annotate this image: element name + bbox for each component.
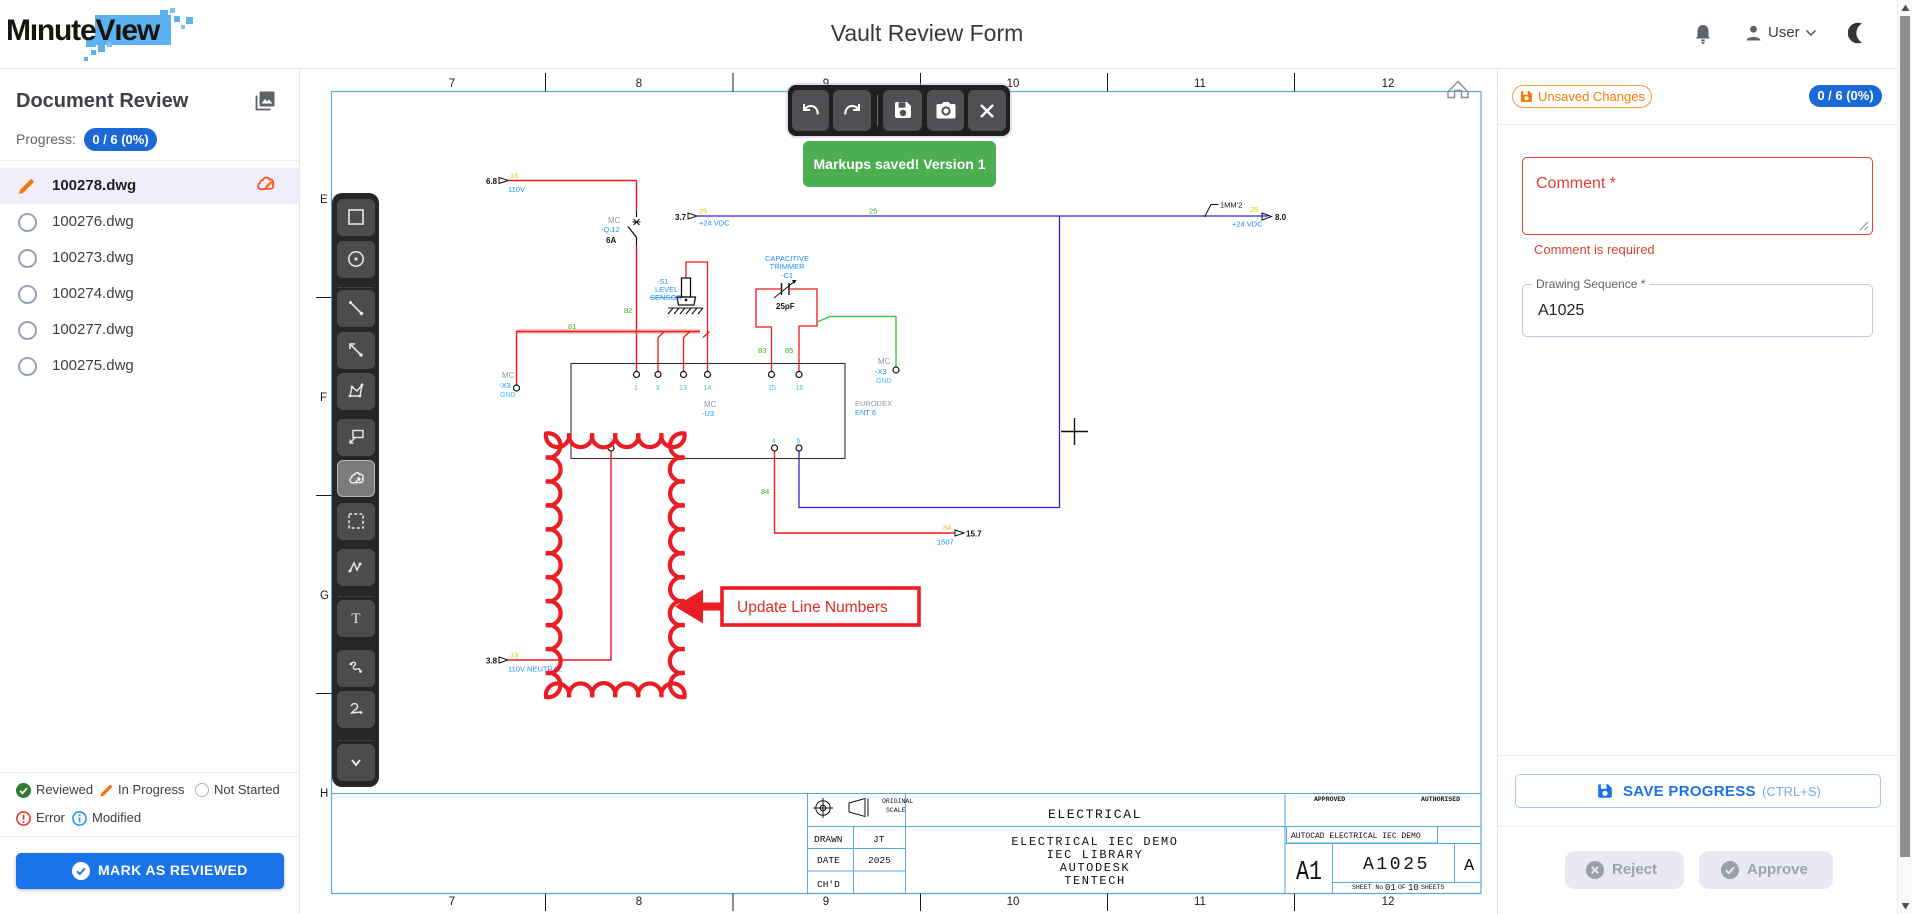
title bbox=[727, 20, 1127, 47]
node 1507 arrow 15.7 bbox=[937, 523, 982, 547]
svg-text:OF: OF bbox=[1398, 884, 1406, 891]
svg-text:-Q.12: -Q.12 bbox=[601, 225, 620, 234]
svg-text:F: F bbox=[320, 392, 327, 404]
file rows bbox=[0, 168, 299, 204]
title block top line bbox=[332, 793, 1482, 795]
svg-text:EURODEX: EURODEX bbox=[855, 399, 892, 408]
svg-text:AUTOCAD ELECTRICAL IEC DEMO: AUTOCAD ELECTRICAL IEC DEMO bbox=[1291, 832, 1421, 841]
svg-text:84: 84 bbox=[943, 523, 951, 532]
svg-text:4: 4 bbox=[772, 438, 776, 445]
module U3 body bbox=[571, 364, 845, 459]
terminal MC-X3 GND left bbox=[499, 371, 516, 399]
logo MinuteView bbox=[8, 8, 208, 60]
svg-text:SCALE: SCALE bbox=[886, 807, 906, 814]
unsaved changes pill bbox=[1512, 85, 1652, 108]
level sensor S1 wiring bbox=[686, 262, 708, 338]
pin 13 bbox=[681, 372, 687, 378]
markup callout box Update Line Numbers bbox=[722, 588, 919, 625]
node 110V feed arrow 6.8 bbox=[486, 171, 525, 194]
svg-text:3: 3 bbox=[656, 385, 660, 392]
svg-text:14: 14 bbox=[704, 385, 712, 392]
wire pin2 to neutral bbox=[509, 452, 612, 661]
svg-text:ELECTRICAL IEC DEMO: ELECTRICAL IEC DEMO bbox=[1011, 835, 1178, 849]
svg-text:84: 84 bbox=[761, 487, 769, 496]
ruler ticks top bbox=[546, 73, 1295, 92]
svg-text:APPROVED: APPROVED bbox=[1314, 796, 1345, 803]
contact to pin14 bbox=[703, 332, 710, 372]
svg-text:SHEETS: SHEETS bbox=[1421, 884, 1445, 891]
wire gauge 1MM2 bbox=[1205, 201, 1243, 218]
svg-text:1507: 1507 bbox=[937, 538, 954, 547]
svg-text:11: 11 bbox=[1194, 896, 1206, 908]
legend bbox=[0, 772, 299, 773]
svg-text:TENTECH: TENTECH bbox=[1064, 874, 1126, 888]
svg-text:6.8: 6.8 bbox=[486, 177, 498, 186]
svg-text:7: 7 bbox=[449, 896, 455, 908]
ruler ticks bottom bbox=[546, 894, 1295, 912]
svg-text:AUTODESK: AUTODESK bbox=[1060, 861, 1130, 875]
ruler numbers top bbox=[449, 78, 1395, 90]
capacitive trimmer C1 labels bbox=[765, 254, 809, 280]
wire C1 left to pin15 bbox=[756, 289, 782, 371]
svg-text:10: 10 bbox=[1408, 883, 1419, 893]
svg-text:12: 12 bbox=[1382, 78, 1395, 90]
pin 16 bbox=[796, 372, 802, 378]
wire +24VDC drop right bbox=[799, 216, 1060, 508]
module U3 label bbox=[702, 400, 717, 418]
svg-text:ORIGINAL: ORIGINAL bbox=[882, 798, 913, 805]
wire down to breaker bbox=[636, 181, 638, 212]
svg-text:81: 81 bbox=[568, 322, 576, 331]
circuit breaker Q12 bbox=[601, 211, 641, 246]
wire breaker to pin1 bbox=[636, 246, 638, 371]
markup revision cloud bbox=[546, 433, 685, 697]
svg-text:MC: MC bbox=[502, 371, 515, 380]
svg-text:8.0: 8.0 bbox=[1275, 213, 1287, 222]
svg-text:8: 8 bbox=[636, 78, 642, 90]
svg-text:AUTHORISED: AUTHORISED bbox=[1421, 796, 1460, 803]
wire green to X3 bbox=[817, 317, 896, 367]
ruler numbers bottom bbox=[449, 896, 1395, 908]
svg-text:16: 16 bbox=[510, 171, 518, 180]
svg-text:MC: MC bbox=[608, 216, 621, 225]
svg-text:01: 01 bbox=[1385, 883, 1396, 893]
bell icon bbox=[1693, 23, 1713, 45]
svg-text:25: 25 bbox=[1250, 205, 1258, 214]
module type EURODEX ENT 6 bbox=[855, 399, 892, 417]
counter badge bbox=[1809, 85, 1882, 107]
contact to pin13 bbox=[684, 332, 691, 372]
home icon bbox=[1448, 82, 1468, 98]
svg-text:-C1: -C1 bbox=[781, 271, 793, 280]
svg-text:-X3: -X3 bbox=[499, 381, 511, 390]
svg-text:8: 8 bbox=[636, 896, 642, 908]
svg-text:1: 1 bbox=[634, 385, 638, 392]
pin 14 bbox=[705, 372, 711, 378]
svg-text:-U3: -U3 bbox=[702, 409, 714, 418]
wire pin4 to 1507 bbox=[775, 452, 956, 534]
svg-text:A1025: A1025 bbox=[1363, 855, 1430, 875]
svg-text:ELECTRICAL: ELECTRICAL bbox=[1048, 807, 1142, 822]
svg-text:TRIMMER: TRIMMER bbox=[770, 262, 806, 271]
svg-text:+24 VDC: +24 VDC bbox=[699, 219, 730, 228]
title block approvals bbox=[1291, 796, 1475, 893]
level sensor S1 bbox=[650, 277, 696, 305]
moon icon bbox=[1848, 22, 1870, 44]
svg-text:H: H bbox=[320, 788, 328, 800]
markup leader arrow bbox=[675, 590, 723, 624]
wire +24VDC bus bbox=[697, 215, 1268, 217]
svg-text:3.8: 3.8 bbox=[486, 657, 498, 666]
wire 110V horizontal bbox=[508, 180, 637, 182]
photo library icon bbox=[254, 90, 276, 112]
svg-text:SHEET No: SHEET No bbox=[1352, 884, 1383, 891]
wire 81 run bbox=[517, 332, 701, 385]
svg-text:25: 25 bbox=[699, 207, 707, 216]
row letters left bbox=[320, 194, 329, 800]
svg-text:25pF: 25pF bbox=[776, 302, 795, 311]
svg-text:5: 5 bbox=[797, 438, 801, 445]
svg-text:25: 25 bbox=[869, 207, 877, 216]
node +24VDC feed arrow 3.7 bbox=[675, 207, 730, 228]
svg-text:6A: 6A bbox=[606, 236, 616, 245]
svg-text:2025: 2025 bbox=[868, 855, 891, 866]
svg-text:E: E bbox=[320, 194, 328, 206]
comment field bbox=[1522, 157, 1873, 235]
svg-text:13: 13 bbox=[510, 651, 518, 660]
svg-text:-X3: -X3 bbox=[875, 367, 887, 376]
svg-text:JT: JT bbox=[873, 834, 885, 845]
capacitor C1 bbox=[774, 280, 797, 298]
node +24VDC out arrow 8.0 bbox=[1232, 205, 1287, 229]
node 110V NEUTRAL arrow 3.8 bbox=[486, 651, 562, 674]
svg-text:15: 15 bbox=[768, 385, 776, 392]
svg-text:12: 12 bbox=[1382, 896, 1395, 908]
svg-text:13: 13 bbox=[679, 385, 687, 392]
svg-text:IEC LIBRARY: IEC LIBRARY bbox=[1047, 848, 1144, 862]
svg-text:Update Line Numbers: Update Line Numbers bbox=[737, 599, 888, 616]
svg-text:A: A bbox=[1464, 857, 1475, 876]
svg-text:GND: GND bbox=[876, 378, 892, 385]
ground hatching bbox=[668, 308, 703, 314]
svg-text:+24 VDC: +24 VDC bbox=[1232, 220, 1263, 229]
svg-text:1MM'2: 1MM'2 bbox=[1220, 201, 1242, 210]
svg-text:85: 85 bbox=[785, 346, 793, 355]
svg-text:DRAWN: DRAWN bbox=[814, 834, 843, 845]
mark as reviewed button bbox=[16, 853, 284, 889]
pin 3 bbox=[655, 372, 661, 378]
save progress bbox=[1498, 755, 1898, 756]
crosshair cursor bbox=[1061, 418, 1088, 445]
pin 1 bbox=[634, 372, 640, 378]
title block grid bbox=[808, 794, 1482, 894]
wire 81 highlight bbox=[517, 329, 701, 334]
svg-text:GND: GND bbox=[500, 392, 516, 399]
svg-text:7: 7 bbox=[449, 78, 455, 90]
title block drawn/date bbox=[814, 834, 891, 890]
title block project bbox=[1011, 807, 1178, 888]
pin 15 bbox=[769, 372, 775, 378]
svg-text:16: 16 bbox=[796, 385, 804, 392]
svg-text:G: G bbox=[320, 590, 329, 602]
svg-text:83: 83 bbox=[758, 346, 766, 355]
svg-text:82: 82 bbox=[624, 306, 632, 315]
wire C1 right to pin16 bbox=[789, 289, 817, 371]
svg-text:10: 10 bbox=[1007, 896, 1020, 908]
svg-text:ENT 6: ENT 6 bbox=[855, 408, 876, 417]
svg-text:MC: MC bbox=[704, 400, 717, 409]
user icon bbox=[1744, 24, 1763, 43]
svg-text:T: T bbox=[351, 611, 360, 627]
svg-text:3.7: 3.7 bbox=[675, 213, 687, 222]
reject / approve bbox=[1565, 851, 1684, 889]
svg-text:11: 11 bbox=[1194, 78, 1206, 90]
svg-text:15.7: 15.7 bbox=[966, 530, 982, 539]
original scale symbol bbox=[813, 798, 868, 818]
drawing sequence field bbox=[1522, 284, 1873, 337]
svg-text:DATE: DATE bbox=[817, 855, 840, 866]
row ticks left bbox=[316, 298, 332, 694]
contact to pin3 bbox=[658, 332, 665, 372]
terminal MC-X3 GND right bbox=[875, 357, 899, 385]
svg-text:CH'D: CH'D bbox=[817, 879, 840, 890]
svg-text:110V: 110V bbox=[508, 185, 525, 194]
svg-text:9: 9 bbox=[823, 896, 829, 908]
svg-text:MC: MC bbox=[878, 357, 891, 366]
svg-text:A1: A1 bbox=[1296, 858, 1322, 888]
sheet border frame bbox=[332, 92, 1482, 894]
